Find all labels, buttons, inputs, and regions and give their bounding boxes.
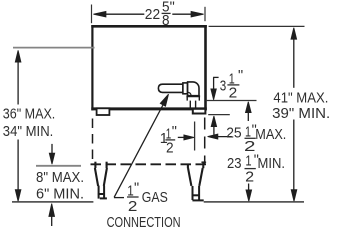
gas pipe union flange: [183, 83, 188, 94]
svg-text:": ": [172, 124, 177, 140]
floor line left segment: [12, 201, 93, 203]
gas connection text CONNECTION: [107, 215, 181, 231]
width dimension extension line left: [91, 5, 93, 24]
right leg mounting bracket (gas connection stub): [193, 109, 206, 114]
leg height reference line: [36, 165, 81, 167]
svg-text:41" MAX.: 41" MAX.: [273, 90, 328, 106]
gas pipe horizontal body: [158, 84, 183, 92]
gas height min reference line: [208, 114, 230, 116]
width dimension extension line right: [204, 7, 206, 21]
svg-text:MAX.: MAX.: [255, 127, 286, 143]
svg-text:1: 1: [245, 153, 251, 170]
gas offset text 1 1/2: [160, 124, 177, 157]
svg-text:": ": [238, 68, 243, 84]
gas pipe elbow: [188, 82, 199, 96]
svg-text:34" MIN.: 34" MIN.: [3, 124, 54, 140]
gas connection text 1/2 GAS: [127, 181, 168, 215]
appliance body bottom edge: [91, 107, 207, 110]
svg-text:3: 3: [220, 78, 227, 94]
leg height label 6 MIN: [36, 186, 84, 202]
gas height text 23 1/2 MIN: [227, 153, 285, 186]
svg-text:2: 2: [166, 139, 174, 156]
gas elbow height dimension 3 1/2: [211, 77, 219, 99]
appliance body right edge: [204, 25, 207, 110]
right leg adjustable foot: [192, 186, 204, 200]
left leg mounting bracket: [97, 108, 110, 115]
svg-text:2: 2: [128, 198, 137, 215]
left leg: [95, 162, 107, 186]
svg-text:MIN.: MIN.: [258, 156, 286, 172]
width dimension arrowheads: [93, 11, 203, 17]
svg-text:8: 8: [162, 12, 170, 29]
floor line right segment: [204, 201, 304, 203]
dashed lower body right edge: [204, 118, 206, 165]
svg-text:CONNECTION: CONNECTION: [107, 215, 181, 231]
height label 34 MIN: [3, 124, 54, 140]
svg-text:22: 22: [145, 7, 160, 23]
overall height label 39 MIN: [272, 106, 330, 122]
leg height label 8 MAX: [36, 170, 84, 186]
svg-text:8" MAX.: 8" MAX.: [36, 170, 84, 186]
gas connection leader line: [114, 94, 169, 197]
gas height dimension line 25.5/23.5: [246, 102, 252, 202]
svg-text:": ": [134, 181, 139, 197]
appliance body top edge: [91, 25, 207, 28]
height label 36 MAX: [3, 106, 56, 122]
svg-text:25: 25: [226, 126, 242, 142]
appliance body left edge: [91, 25, 93, 110]
overall height label 41 MAX: [273, 90, 328, 106]
gas elbow height text 3 1/2: [220, 68, 243, 101]
svg-text:6" MIN.: 6" MIN.: [36, 186, 84, 202]
gas height max reference line: [206, 100, 257, 102]
gas pipe collar below elbow: [186, 96, 200, 100]
top height extension line right: [209, 25, 305, 27]
svg-text:36" MAX.: 36" MAX.: [3, 106, 56, 122]
svg-text:23: 23: [227, 156, 242, 172]
leg height dimension arrows 8/6: [49, 144, 55, 226]
dashed lower body bottom line: [91, 163, 210, 165]
svg-text:2: 2: [229, 84, 238, 101]
svg-text:2: 2: [245, 169, 254, 186]
svg-text:39" MIN.: 39" MIN.: [272, 106, 330, 122]
width dimension text 22 5/8: [145, 0, 175, 29]
gas offset left arrow: [208, 134, 232, 139]
gas pipe vertical drop: [190, 101, 195, 109]
gas pipe centerline extension: [194, 122, 196, 151]
width dimension line 22 5/8: [95, 13, 203, 15]
overall height dimension line 41/39: [291, 28, 297, 202]
left leg adjustable foot: [98, 186, 107, 199]
gas offset right arrow: [178, 135, 194, 140]
svg-text:GAS: GAS: [142, 190, 168, 206]
gas min line arrow: [211, 116, 216, 135]
counter height reference line left: [13, 47, 95, 49]
height dimension line 36/34: [15, 50, 21, 201]
gas height text 25 1/2 MAX: [226, 122, 286, 155]
dashed lower body left edge: [92, 119, 94, 161]
right leg: [188, 161, 206, 186]
